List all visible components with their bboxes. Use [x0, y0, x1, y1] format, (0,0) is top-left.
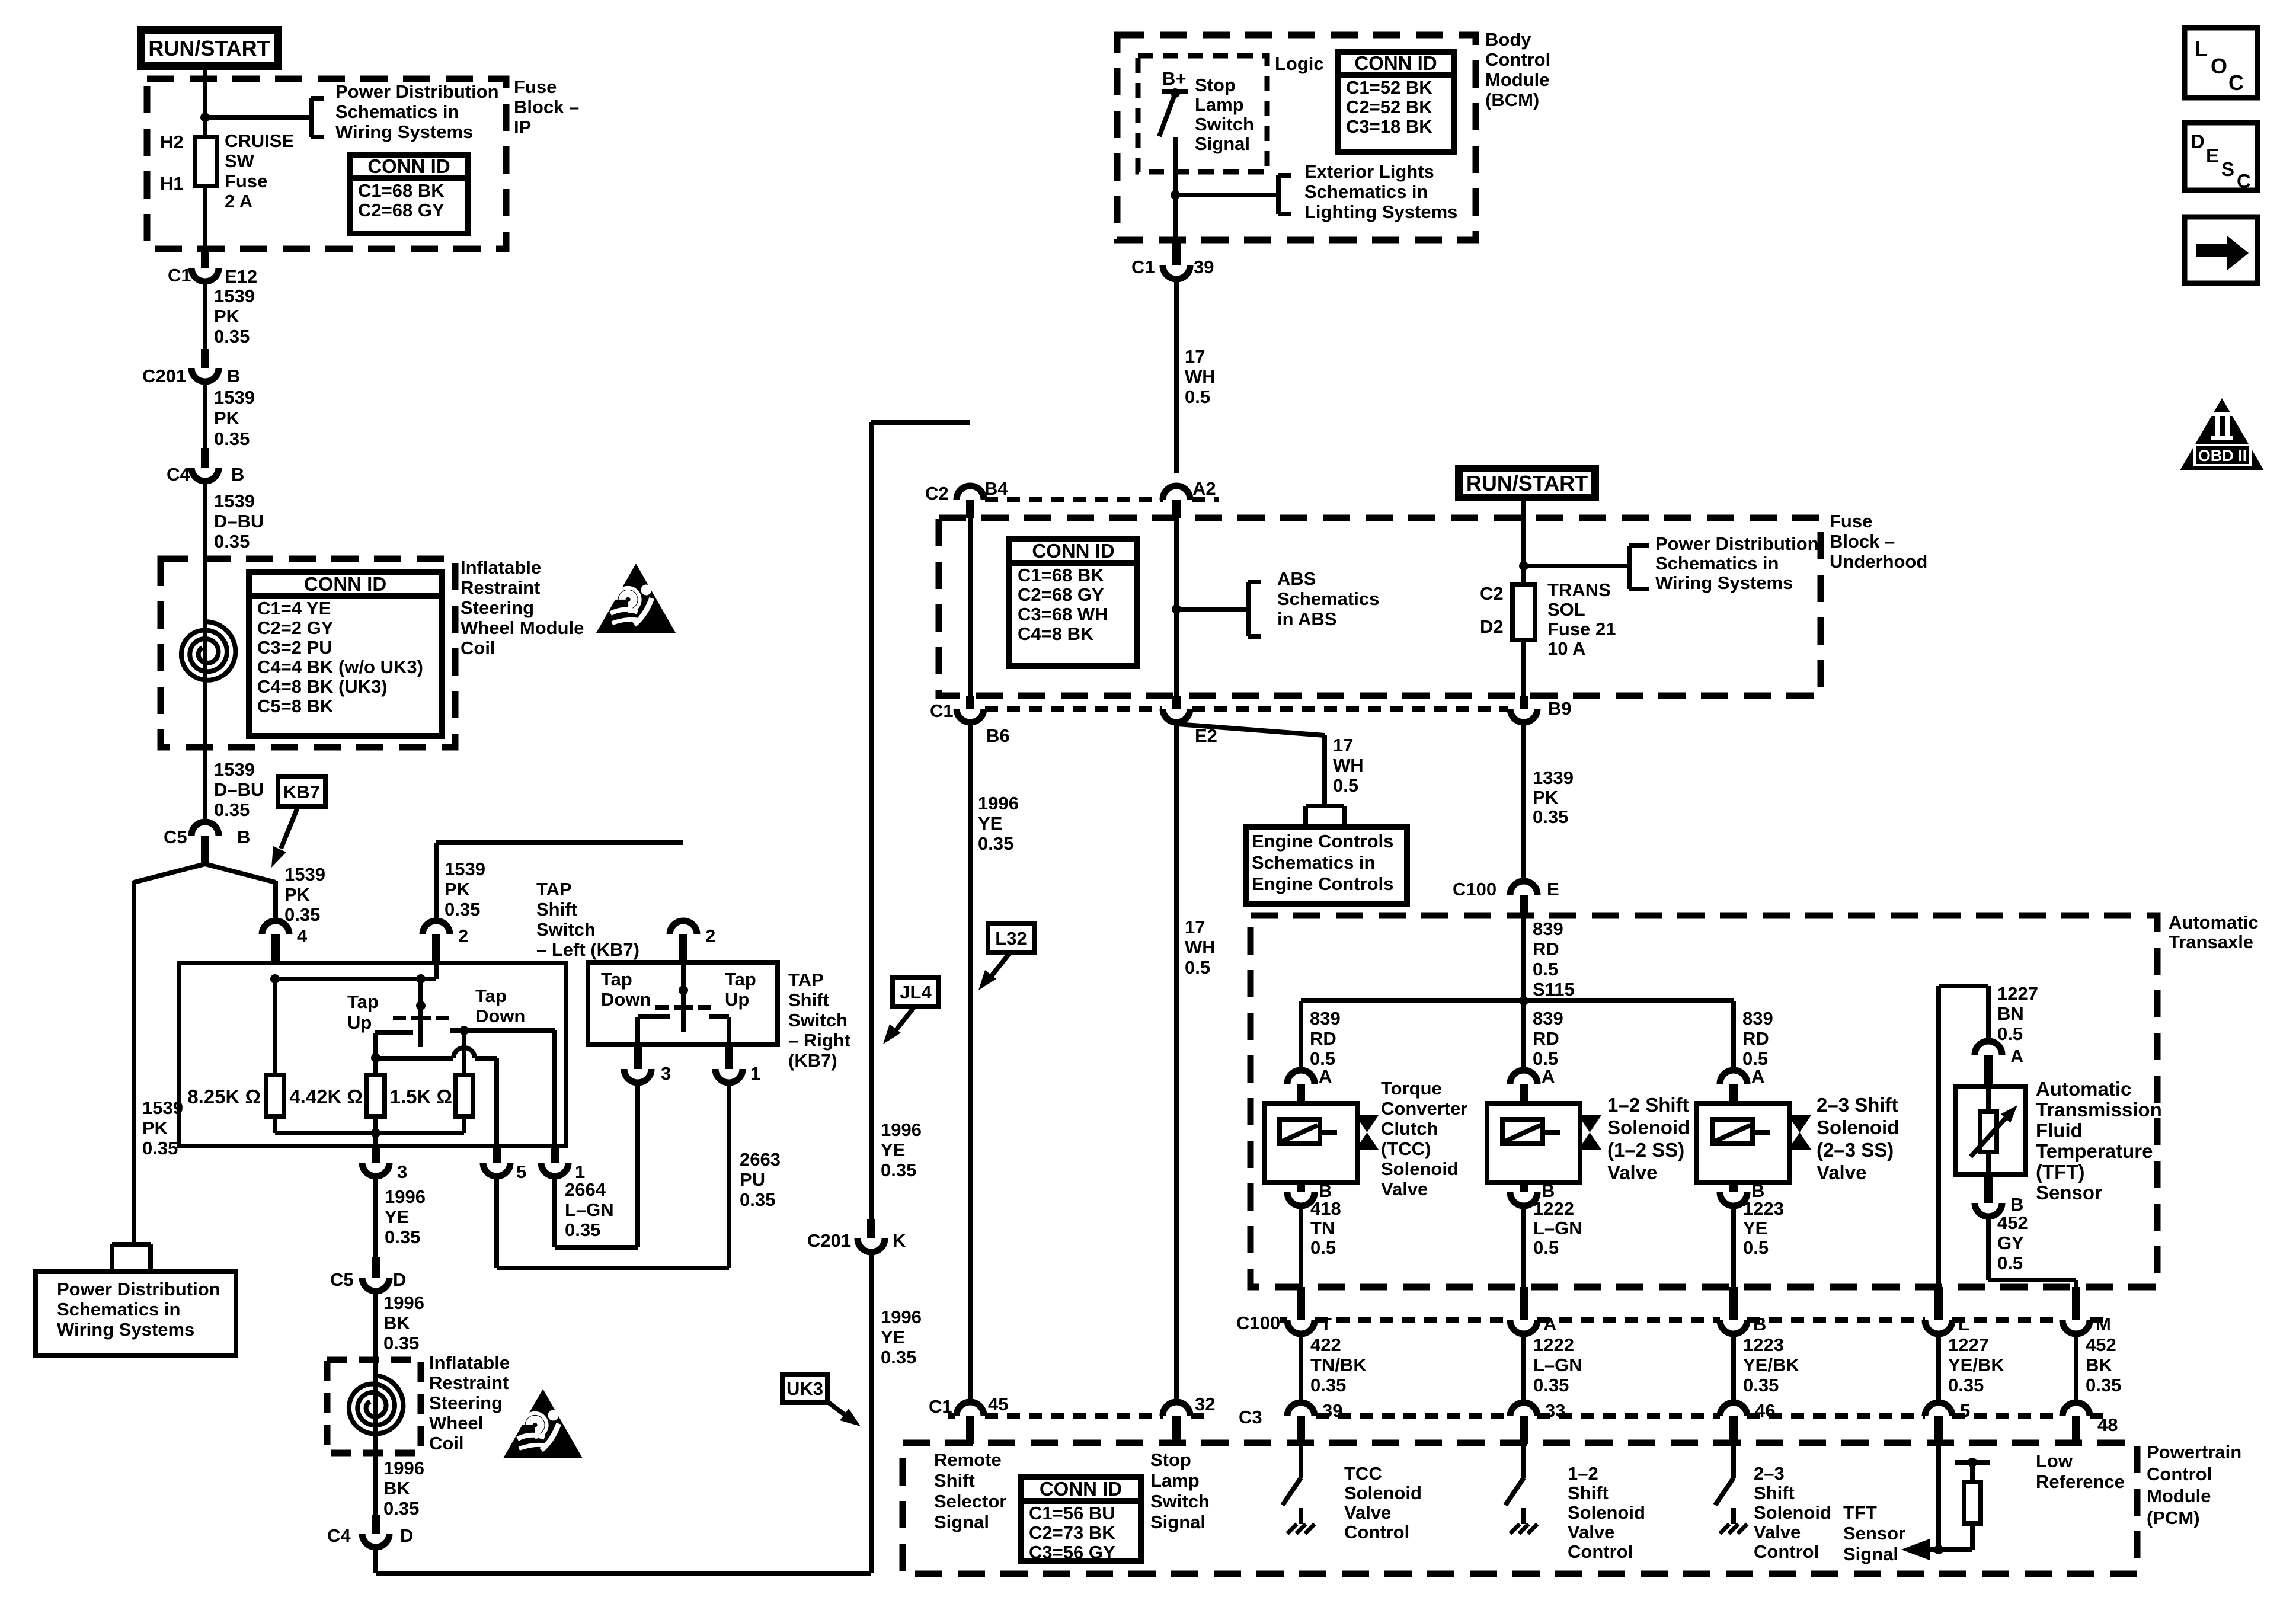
svg-text:Restraint: Restraint [461, 577, 540, 598]
svg-text:Sensor: Sensor [2036, 1182, 2102, 1204]
wire E2 to 32 [1174, 722, 1179, 1402]
wire C1 39 to A2 [1174, 279, 1179, 473]
svg-text:1996: 1996 [978, 793, 1019, 814]
svg-text:0.35: 0.35 [142, 1138, 178, 1158]
svg-text:839: 839 [1310, 1008, 1341, 1029]
label 2 (left) [458, 926, 468, 946]
svg-text:0.35: 0.35 [740, 1189, 775, 1210]
svg-text:39: 39 [1194, 257, 1214, 277]
tap down contact (left box) [450, 1026, 471, 1035]
svg-text:Automatic: Automatic [2169, 912, 2259, 933]
wire 2-3 B to C100 B [1731, 1205, 1736, 1287]
label B+ [1162, 68, 1187, 89]
wire through lower coil [373, 1360, 378, 1515]
label 1222 L-GN 0.5 [1533, 1198, 1582, 1258]
connector pin 1 (right switch) [715, 1045, 743, 1083]
svg-text:Shift: Shift [934, 1470, 975, 1491]
tap down contact (right box) [638, 1017, 670, 1045]
svg-text:0.5: 0.5 [1997, 1253, 2023, 1273]
label C5 (B) [164, 827, 187, 847]
wire stop lamp to C1 39 [1173, 195, 1178, 239]
svg-text:Valve: Valve [1381, 1179, 1428, 1199]
svg-text:4: 4 [297, 926, 308, 946]
power feed tag RUN/START (underhood) [1459, 469, 1595, 498]
svg-text:Wiring Systems: Wiring Systems [57, 1319, 194, 1340]
svg-text:UK3: UK3 [786, 1378, 823, 1399]
svg-text:Tap: Tap [601, 969, 632, 990]
label TRANS SOL Fuse 21 10 A [1547, 580, 1616, 659]
svg-text:Signal: Signal [1843, 1544, 1898, 1564]
svg-text:Control: Control [1344, 1522, 1409, 1542]
left switch bottom bus [275, 1128, 464, 1138]
svg-text:– Left (KB7): – Left (KB7) [536, 939, 639, 960]
wire 5 to low reference node [1934, 1444, 1943, 1554]
label C1 (39) [1131, 257, 1155, 277]
svg-text:Automatic: Automatic [2036, 1078, 2131, 1100]
TFT sensor signal arrow [1901, 1539, 1972, 1560]
svg-text:1227: 1227 [1948, 1334, 1989, 1355]
svg-text:C3=56 GY: C3=56 GY [1029, 1542, 1115, 1563]
svg-text:Wheel Module: Wheel Module [461, 617, 584, 638]
label C4 [167, 464, 190, 485]
label 1 (left switch) [575, 1161, 585, 1182]
wire through coil module [203, 559, 207, 822]
label Power Distribution Schematics in Wiring Systems (IP) [335, 81, 499, 142]
label 418 TN 0.5 [1310, 1198, 1341, 1258]
label 17 WH 0.5 (E2-32) [1185, 917, 1216, 978]
power distribution schematics reference box [36, 1272, 236, 1355]
left switch supply bus [270, 974, 436, 984]
svg-text:YE: YE [881, 1140, 905, 1160]
svg-text:0.5: 0.5 [1533, 1237, 1559, 1258]
TFT sensor arrow [1971, 1105, 2017, 1157]
svg-text:2663: 2663 [740, 1149, 781, 1170]
svg-text:C2=52 BK: C2=52 BK [1346, 97, 1432, 117]
label TCC Solenoid Valve Control [1344, 1463, 1422, 1542]
label 17 WH 0.5 (upper) [1185, 346, 1216, 407]
svg-text:Torque: Torque [1381, 1078, 1442, 1099]
svg-text:RD: RD [1533, 1028, 1559, 1049]
wire right pin3 to left pin1 [555, 1082, 638, 1247]
svg-text:1223: 1223 [1743, 1198, 1784, 1219]
label 32 [1195, 1394, 1215, 1414]
svg-text:CRUISE: CRUISE [225, 130, 294, 151]
right switch pole [679, 962, 688, 995]
label 39 [1194, 257, 1214, 277]
connector row C100 dotted [1280, 1317, 2108, 1323]
label 3 [397, 1161, 407, 1182]
svg-text:Valve: Valve [1754, 1522, 1801, 1542]
svg-text:ABS: ABS [1277, 568, 1316, 589]
connector pin 4 (left switch) [262, 921, 289, 963]
svg-text:Control: Control [2147, 1464, 2212, 1484]
svg-text:Fuse: Fuse [514, 76, 557, 97]
svg-text:Body: Body [1485, 29, 1531, 50]
svg-text:Logic: Logic [1275, 53, 1324, 74]
label Powertrain Control Module PCM [2147, 1442, 2241, 1528]
label Fuse Block - Underhood [1830, 511, 1927, 572]
svg-text:D–BU: D–BU [214, 511, 264, 532]
svg-text:0.35: 0.35 [383, 1333, 419, 1353]
label Power Distribution Schematics in Wiring Systems (box) [57, 1279, 220, 1340]
callout KB7 [278, 777, 325, 806]
svg-text:Engine Controls: Engine Controls [1252, 831, 1393, 852]
svg-text:C: C [2237, 170, 2251, 192]
svg-text:1539: 1539 [214, 286, 255, 306]
label A2 [1192, 478, 1216, 499]
svg-text:Restraint: Restraint [429, 1372, 509, 1393]
resistor R3 1.5K [455, 1030, 473, 1133]
label A (TCC) [1319, 1066, 1332, 1087]
clockspring coil symbol (lower) [349, 1375, 404, 1434]
bracket engine controls [1306, 806, 1344, 827]
label A (TFT) [2010, 1046, 2023, 1067]
label 839 RD 0.5 (TCC) [1310, 1008, 1341, 1069]
connector A 2-3 [1720, 1070, 1747, 1103]
connector pin 1 (left switch) [541, 1146, 568, 1176]
svg-text:5: 5 [516, 1161, 526, 1182]
airbag warning triangle (lower) [503, 1389, 583, 1458]
svg-text:0.35: 0.35 [1948, 1375, 1984, 1395]
wire fuse to C1 [203, 186, 207, 249]
svg-text:YE/BK: YE/BK [1743, 1355, 1799, 1375]
svg-text:Engine Controls: Engine Controls [1252, 873, 1393, 894]
svg-text:Fuse: Fuse [1830, 511, 1872, 532]
connector B 1-2 [1510, 1182, 1537, 1206]
splice bus S115 [1301, 998, 1734, 1003]
svg-text:17: 17 [1185, 346, 1205, 367]
connector pin 2 (left switch) [423, 921, 450, 963]
connector A 1-2 [1510, 1070, 1537, 1103]
svg-text:Valve: Valve [1344, 1502, 1391, 1523]
svg-text:839: 839 [1742, 1008, 1773, 1029]
svg-text:Module: Module [2147, 1486, 2211, 1506]
svg-text:S: S [2221, 158, 2234, 180]
TFT sensor resistor [1980, 1086, 1997, 1174]
automatic transaxle dashed box [1251, 916, 2157, 1287]
label C4 (D) [327, 1525, 351, 1546]
wire right pin1 to left pin5 [497, 1082, 729, 1268]
label C201 (K) [807, 1230, 851, 1251]
svg-text:WH: WH [1333, 755, 1364, 776]
svg-text:0.35: 0.35 [881, 1160, 916, 1180]
valve symbol 1-2 [1578, 1115, 1601, 1150]
svg-text:Lamp: Lamp [1150, 1470, 1200, 1491]
svg-text:Remote: Remote [934, 1449, 1002, 1470]
svg-text:Valve: Valve [1817, 1161, 1866, 1183]
svg-text:YE/BK: YE/BK [1948, 1355, 2004, 1375]
label C2 (B4) [925, 483, 949, 504]
label 1539 PK 0.35 (pin4) [284, 864, 325, 925]
svg-text:TCC: TCC [1344, 1463, 1382, 1484]
TFT sensor box [1955, 1086, 2025, 1174]
label D (C5) [393, 1269, 406, 1290]
left switch linkage dashes [393, 1016, 449, 1020]
fuse TRANS SOL 21 [1512, 584, 1535, 640]
svg-text:2: 2 [705, 926, 715, 946]
svg-text:TN: TN [1310, 1218, 1335, 1238]
svg-text:0.35: 0.35 [445, 899, 480, 920]
label C1 [168, 265, 191, 286]
label 839 RD 0.5 S115 [1533, 918, 1575, 1000]
left switch blade [411, 1009, 431, 1047]
svg-text:M: M [2096, 1314, 2111, 1334]
svg-text:Coil: Coil [429, 1433, 464, 1454]
svg-text:Switch: Switch [788, 1010, 848, 1030]
label Tap Down (right box) [601, 969, 651, 1010]
wire B9 to C100 E [1521, 722, 1526, 882]
svg-text:C3=18 BK: C3=18 BK [1346, 116, 1432, 137]
svg-text:TAP: TAP [536, 879, 572, 900]
wire branch to power distribution (underhood) [1524, 564, 1629, 568]
svg-text:1339: 1339 [1533, 767, 1574, 788]
fuse CRUISE SW 2A [195, 137, 217, 186]
svg-text:(TCC): (TCC) [1381, 1138, 1431, 1159]
label 1.5K ohm [390, 1086, 452, 1108]
svg-text:C2: C2 [1480, 583, 1504, 604]
wire L to C3 5 [1936, 1333, 1941, 1403]
svg-text:Sensor: Sensor [1843, 1523, 1905, 1544]
connector B TFT [1975, 1174, 2002, 1217]
connector B TCC [1287, 1182, 1315, 1206]
svg-text:0.35: 0.35 [1533, 1375, 1569, 1395]
svg-text:Underhood: Underhood [1830, 551, 1927, 572]
label E2 [1195, 725, 1217, 746]
svg-text:3: 3 [661, 1063, 671, 1084]
svg-text:A2: A2 [1192, 478, 1216, 499]
svg-text:(BCM): (BCM) [1485, 89, 1539, 110]
svg-text:C5: C5 [330, 1269, 354, 1290]
svg-text:Valve: Valve [1607, 1161, 1657, 1183]
wire branch to power distribution reference [205, 115, 311, 120]
connector C201 B [191, 349, 219, 382]
connector C1 39 [1163, 239, 1190, 279]
svg-text:D2: D2 [1480, 616, 1504, 637]
svg-text:0.5: 0.5 [1997, 1023, 2023, 1044]
label 1227 BN 0.5 [1997, 983, 2038, 1044]
svg-text:422: 422 [1310, 1334, 1341, 1355]
svg-text:C201: C201 [142, 366, 186, 386]
svg-text:Up: Up [725, 989, 749, 1010]
svg-text:E12: E12 [225, 266, 257, 287]
svg-text:PK: PK [284, 884, 311, 905]
label 2-3 Shift Solenoid (2-3 SS) Valve [1817, 1094, 1899, 1183]
svg-text:PU: PU [740, 1169, 765, 1190]
label C1 (45) [929, 1396, 952, 1417]
svg-text:Tap: Tap [475, 985, 507, 1006]
svg-text:C1: C1 [1131, 257, 1155, 277]
bracket power distribution reference (IP) [311, 98, 324, 137]
label Body Control Module BCM [1485, 29, 1550, 110]
label 5 (left switch) [516, 1161, 526, 1182]
node S115 [1519, 996, 1528, 1006]
wire split below C5 B [134, 864, 276, 882]
wire M to C3 48 [2074, 1333, 2078, 1403]
svg-text:Schematics in: Schematics in [1304, 181, 1428, 202]
svg-text:0.35: 0.35 [214, 531, 250, 552]
label ABS Schematics in ABS [1277, 568, 1379, 629]
svg-text:C100: C100 [1236, 1313, 1280, 1333]
connector C100 T [1287, 1287, 1315, 1334]
label 4 [297, 926, 308, 946]
svg-text:E: E [2206, 145, 2219, 167]
svg-text:B: B [1753, 1314, 1766, 1334]
svg-text:Wiring Systems: Wiring Systems [335, 121, 473, 142]
svg-text:1–2 Shift: 1–2 Shift [1607, 1094, 1689, 1116]
svg-text:Power Distribution: Power Distribution [1655, 533, 1819, 554]
wire A2 to E2 inside box [1174, 518, 1179, 709]
svg-text:1539: 1539 [214, 491, 255, 511]
svg-text:Lamp: Lamp [1195, 94, 1244, 115]
label 1996 YE 0.35 (riser upper) [881, 1119, 922, 1180]
svg-text:L–GN: L–GN [1533, 1218, 1582, 1238]
svg-text:418: 418 [1310, 1198, 1341, 1219]
label A (C100) [1543, 1314, 1556, 1334]
label 839 RD 0.5 (1-2) [1533, 1008, 1563, 1069]
label Automatic Transaxle [2169, 912, 2259, 952]
svg-text:0.35: 0.35 [1743, 1375, 1779, 1395]
wire to exterior lights bracket [1175, 193, 1278, 197]
wire T to C3 39 [1299, 1333, 1303, 1403]
svg-text:Signal: Signal [1195, 133, 1250, 154]
svg-text:T: T [1320, 1314, 1332, 1334]
solenoid 2-3 shift valve [1697, 1103, 1790, 1182]
label 1223 YE/BK 0.35 46 [1743, 1334, 1799, 1421]
label Exterior Lights Schematics in Lighting Systems [1304, 161, 1457, 222]
BCM logic dashed box [1138, 56, 1267, 172]
svg-text:BK: BK [2086, 1355, 2112, 1375]
svg-text:1996: 1996 [383, 1292, 424, 1313]
power feed tag RUN/START (IP) [141, 30, 278, 66]
svg-text:RD: RD [1533, 939, 1559, 959]
solenoid 1-2 shift valve [1487, 1103, 1580, 1182]
svg-text:8.25K Ω: 8.25K Ω [187, 1086, 261, 1108]
svg-text:RUN/START: RUN/START [148, 36, 270, 60]
svg-text:Fuse 21: Fuse 21 [1547, 619, 1616, 639]
svg-text:Selector: Selector [934, 1491, 1006, 1512]
node junction on feed wire [200, 113, 210, 122]
svg-text:Solenoid: Solenoid [1754, 1502, 1831, 1523]
svg-text:C2=68 GY: C2=68 GY [1018, 584, 1104, 605]
svg-text:17: 17 [1185, 917, 1205, 937]
svg-text:(KB7): (KB7) [788, 1050, 837, 1071]
svg-text:Temperature: Temperature [2036, 1140, 2153, 1162]
label B (C4) [231, 464, 244, 485]
svg-text:C1: C1 [930, 700, 954, 721]
svg-text:Solenoid: Solenoid [1568, 1502, 1645, 1523]
label Tap Up (right box) [725, 969, 756, 1010]
label 17 WH 0.5 (branch) [1333, 735, 1364, 796]
svg-text:C1=68 BK: C1=68 BK [1018, 565, 1104, 585]
svg-text:839: 839 [1533, 918, 1563, 939]
svg-text:C1=52 BK: C1=52 BK [1346, 77, 1432, 98]
svg-text:C4=4 BK (w/o UK3): C4=4 BK (w/o UK3) [257, 657, 423, 677]
svg-text:Control: Control [1568, 1541, 1633, 1562]
svg-text:Shift: Shift [1754, 1483, 1795, 1503]
wire C4 to coil module [203, 481, 207, 559]
svg-text:0.5: 0.5 [1310, 1237, 1336, 1258]
connector B9 [1510, 696, 1537, 722]
svg-text:(1–2 SS): (1–2 SS) [1607, 1139, 1684, 1161]
wire S115 to 2-3 A [1731, 1001, 1736, 1070]
svg-text:1539: 1539 [284, 864, 325, 885]
wire L riser [1936, 986, 1941, 1287]
svg-text:0.35: 0.35 [383, 1498, 419, 1519]
svg-text:0.35: 0.35 [214, 326, 250, 347]
wire TCC B to C100 T [1299, 1205, 1303, 1287]
svg-text:WH: WH [1185, 937, 1216, 958]
svg-text:Inflatable: Inflatable [461, 557, 541, 578]
TAP shift switch left box [179, 963, 566, 1146]
svg-text:A: A [1543, 1314, 1556, 1334]
svg-text:A: A [1542, 1066, 1555, 1087]
svg-text:PK: PK [142, 1118, 168, 1138]
airbag warning triangle (upper) [596, 564, 676, 633]
label A (2-3) [1751, 1066, 1764, 1087]
label Power Distribution Schematics in Wiring Systems (underhood) [1655, 533, 1819, 593]
svg-text:4.42K Ω: 4.42K Ω [289, 1086, 363, 1108]
label Stop Lamp Switch Signal [1195, 75, 1254, 154]
label D (C4) [400, 1525, 413, 1546]
svg-text:B: B [227, 366, 240, 386]
connector pin 3 (left switch) [362, 1146, 389, 1176]
label H2 [160, 132, 184, 152]
label Logic [1275, 53, 1324, 74]
low reference top bar [1955, 1458, 1990, 1467]
callout JL4 [893, 978, 939, 1006]
label C100 (E) [1453, 879, 1496, 900]
svg-text:TN/BK: TN/BK [1310, 1355, 1367, 1375]
connector B 2-3 [1720, 1182, 1747, 1206]
wire to ABS bracket [1176, 607, 1248, 612]
svg-text:SOL: SOL [1547, 599, 1585, 620]
svg-text:C4=8 BK: C4=8 BK [1018, 623, 1094, 644]
svg-text:C3=68 WH: C3=68 WH [1018, 604, 1108, 625]
switch 2-3 shift solenoid valve control [1715, 1444, 1747, 1534]
svg-text:C201: C201 [807, 1230, 851, 1251]
resistor R1 8.25K [266, 979, 284, 1133]
callout UK3 [782, 1374, 827, 1403]
wire to pin 4 [273, 881, 278, 921]
svg-text:D: D [393, 1269, 406, 1290]
svg-text:B9: B9 [1548, 698, 1572, 719]
svg-text:Fuse: Fuse [225, 171, 267, 191]
svg-text:C1=68 BK: C1=68 BK [358, 180, 445, 201]
svg-text:Switch: Switch [1150, 1491, 1210, 1512]
label Fuse Block - IP [514, 76, 579, 137]
label 452 BK 0.35 48 [2086, 1334, 2121, 1435]
connector C100 L [1925, 1287, 1952, 1334]
svg-text:Fluid: Fluid [2036, 1119, 2083, 1141]
label 2663 PU 0.35 [740, 1149, 781, 1210]
wire fuse 21 to B9 [1521, 640, 1526, 709]
svg-text:0.5: 0.5 [1185, 386, 1210, 407]
svg-text:C2=73 BK: C2=73 BK [1029, 1522, 1115, 1543]
wire C1 to C201 [203, 281, 207, 349]
label C5 (D) [330, 1269, 354, 1290]
wire C5 D to lower coil [373, 1291, 378, 1360]
connector C3 5 [1925, 1403, 1952, 1444]
connector C2 B4 [957, 486, 984, 518]
svg-text:C3=2 PU: C3=2 PU [257, 637, 332, 658]
svg-text:C2: C2 [925, 483, 949, 504]
svg-text:Block –: Block – [514, 97, 579, 117]
svg-text:Signal: Signal [1150, 1512, 1205, 1532]
wire TFT A feed [1939, 986, 1988, 1042]
wire tap down to pin 1 [464, 1030, 555, 1146]
svg-text:Coil: Coil [461, 638, 495, 658]
bracket power distribution (underhood) [1629, 546, 1649, 589]
